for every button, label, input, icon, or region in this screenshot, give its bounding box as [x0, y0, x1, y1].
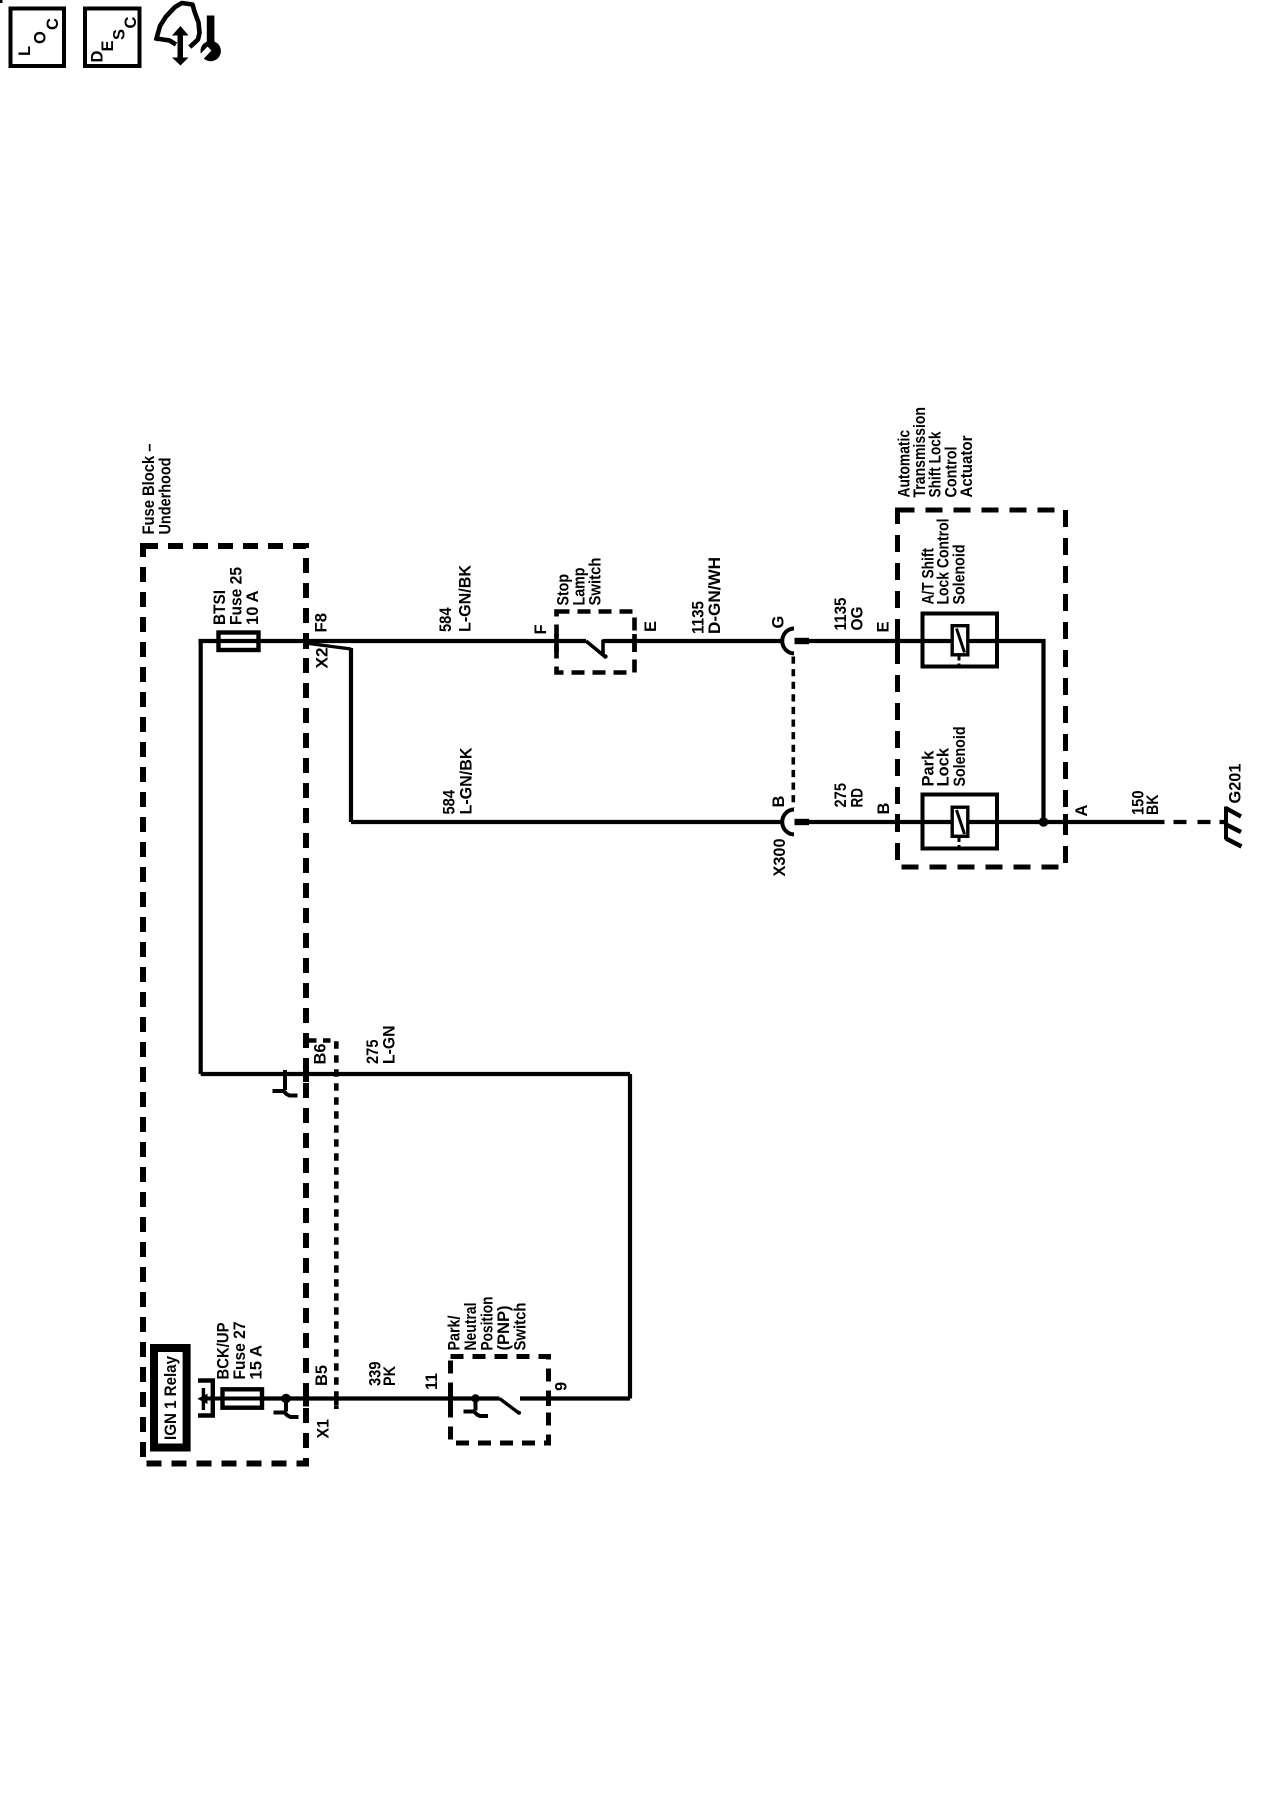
svg-text:Fuse 25: Fuse 25 [228, 567, 246, 625]
svg-text:PK: PK [381, 1366, 399, 1386]
wire 1135 D-GN/WH [603, 639, 784, 643]
X300 G pin stub [795, 638, 810, 644]
tick X1 dotted at B5 [334, 1392, 339, 1405]
IGN 1 relay box [154, 1348, 187, 1448]
wire park output to ground [999, 820, 1165, 824]
svg-text:Fuse Block –: Fuse Block – [140, 444, 158, 535]
svg-text:IGN 1 Relay: IGN 1 Relay [162, 1355, 180, 1440]
wire 339 PK [264, 1396, 500, 1400]
svg-text:D-GN/WH: D-GN/WH [706, 557, 724, 634]
X300 B pin stub [795, 819, 810, 825]
label 1135 OG [832, 598, 867, 631]
svg-text:B: B [875, 803, 893, 815]
svg-text:11: 11 [423, 1373, 441, 1390]
svg-text:E: E [99, 40, 117, 51]
svg-text:584: 584 [441, 789, 459, 814]
svg-text:Position: Position [479, 1297, 497, 1351]
PNP connector stub [474, 1402, 478, 1411]
label 275 L-GN [364, 1026, 399, 1065]
svg-text:10 A: 10 A [244, 590, 262, 625]
wire PNP pin 9 [520, 1396, 630, 1400]
wire vertical X2 branch [349, 648, 353, 822]
svg-text:G201: G201 [1227, 764, 1245, 804]
park solenoid box [923, 795, 998, 849]
svg-text:G: G [770, 616, 788, 629]
PNP switch label [446, 1297, 530, 1351]
svg-text:Solenoid: Solenoid [951, 727, 969, 787]
wire 584 L-GN/BK lower run [351, 820, 784, 824]
wire 1135 OG [808, 639, 921, 643]
svg-text:BTSI: BTSI [211, 590, 229, 625]
svg-text:B5: B5 [313, 1365, 331, 1386]
wire inside park solenoid [921, 820, 1000, 824]
svg-text:15 A: 15 A [248, 1345, 266, 1380]
fuse block - underhood dashed box [143, 546, 306, 1464]
svg-text:Switch: Switch [512, 1303, 530, 1351]
label 584 L-GN/BK top [437, 565, 475, 632]
tick fuse block edge at B6 [303, 1066, 309, 1082]
wire dashes to ground [1174, 820, 1227, 824]
svg-text:Switch: Switch [587, 558, 605, 606]
svg-text:RD: RD [849, 788, 867, 808]
svg-text:Underhood: Underhood [157, 458, 175, 535]
svg-text:Fuse 27: Fuse 27 [231, 1322, 249, 1380]
label 1135 D-GN/WH [690, 557, 725, 634]
relay output bracket [198, 1381, 213, 1416]
X300 connector G arc [782, 629, 794, 654]
svg-text:C: C [44, 18, 62, 30]
stop lamp switch label [555, 558, 605, 606]
stop lamp switch dashed box [557, 612, 635, 673]
tick fuse block edge at F8 [303, 633, 309, 649]
wire vertical from fuse25 to B6 [199, 641, 203, 1074]
wire vertical right to PNP [628, 1074, 632, 1399]
X300 connector B arc [782, 810, 794, 835]
svg-text:Lock: Lock [935, 747, 953, 786]
svg-text:F8: F8 [313, 613, 331, 633]
DESC button [85, 9, 140, 67]
svg-text:X2: X2 [314, 648, 332, 669]
PNP switch blade [500, 1399, 520, 1414]
svg-text:S: S [111, 29, 129, 40]
svg-text:X1: X1 [315, 1419, 333, 1439]
fuse F25 (BTSI) [219, 633, 259, 651]
park lock solenoid label [920, 727, 970, 787]
junction dot [1039, 817, 1049, 827]
label 150 BK [1130, 791, 1163, 816]
svg-text:B6: B6 [312, 1044, 330, 1065]
svg-text:275: 275 [832, 783, 850, 808]
svg-text:F: F [532, 624, 550, 634]
wire 275 RD [808, 820, 921, 824]
wire fuse25 left stub [199, 639, 587, 643]
tick stop lamp box right [632, 634, 637, 652]
svg-text:1135: 1135 [690, 601, 708, 634]
stop lamp switch contact tick [601, 640, 605, 656]
svg-text:L: L [16, 46, 34, 56]
svg-text:(PNP): (PNP) [495, 1306, 513, 1351]
LOC button [11, 9, 65, 67]
svg-text:A: A [1073, 805, 1091, 817]
relay contact arrow [202, 1388, 205, 1410]
svg-text:L-GN/BK: L-GN/BK [458, 747, 476, 814]
X1 B5 connector stub [284, 1402, 288, 1412]
A/T shift lock control solenoid label [920, 519, 969, 605]
B6 connector stub [283, 1070, 287, 1090]
svg-text:Neutral: Neutral [462, 1303, 480, 1351]
svg-text:584: 584 [437, 607, 455, 632]
svg-text:X300: X300 [771, 839, 789, 877]
B6 connector hook [273, 1091, 298, 1096]
svg-text:BK: BK [1144, 794, 1162, 815]
X1 B5 connector hook [274, 1413, 299, 1418]
svg-text:B: B [770, 796, 788, 808]
svg-text:9: 9 [553, 1382, 571, 1391]
X1 dotted connector line [309, 1041, 336, 1410]
actuator label [896, 407, 976, 498]
X300 dashed link [791, 657, 795, 809]
ticks PNP box edges [448, 1391, 453, 1406]
svg-text:L-GN/BK: L-GN/BK [457, 565, 475, 632]
BCK/UP fuse label [215, 1322, 266, 1380]
svg-text:C: C [122, 17, 140, 29]
fuse block label [140, 444, 175, 535]
fuse F27 (BCK/UP) [223, 1389, 263, 1407]
tick fuse block edge at B5 [303, 1391, 309, 1407]
vehicle service icon [157, 3, 221, 66]
X2 branch jog [305, 643, 351, 649]
svg-text:O: O [32, 31, 50, 44]
label 584 L-GN/BK bottom [441, 747, 476, 814]
corner artifact [0, 0, 3, 3]
wire relay to fuse27 [203, 1397, 264, 1401]
svg-text:275: 275 [364, 1040, 382, 1065]
park solenoid coil [952, 807, 968, 836]
wire inside A/T solenoid [921, 639, 1000, 643]
label 275 RD [832, 783, 867, 808]
wire A/T solenoid output [999, 641, 1044, 822]
BTSI fuse label [211, 567, 262, 625]
PNP junction dot [471, 1394, 479, 1402]
PNP connector hook [464, 1412, 489, 1417]
junction dot at fuse27 output [281, 1394, 291, 1404]
PNP switch dashed box [451, 1357, 549, 1444]
ground G201 [1226, 807, 1242, 847]
ticks actuator edges [895, 633, 900, 649]
svg-text:BCK/UP: BCK/UP [215, 1323, 233, 1380]
A/T solenoid coil [952, 626, 968, 655]
tick stop lamp box left [554, 634, 559, 652]
actuator dashed box [898, 510, 1066, 867]
svg-text:Actuator: Actuator [958, 435, 976, 498]
wire 275 L-GN run [201, 1072, 630, 1076]
A/T solenoid box [923, 614, 998, 667]
svg-text:1135: 1135 [832, 598, 850, 631]
label 339 PK [367, 1362, 400, 1387]
svg-text:L-GN: L-GN [381, 1026, 399, 1065]
svg-text:E: E [642, 621, 660, 632]
svg-text:OG: OG [849, 607, 867, 631]
stop lamp switch blade [586, 641, 606, 658]
svg-text:E: E [875, 621, 893, 632]
svg-text:Park/: Park/ [446, 1315, 464, 1350]
svg-text:Solenoid: Solenoid [951, 545, 969, 605]
